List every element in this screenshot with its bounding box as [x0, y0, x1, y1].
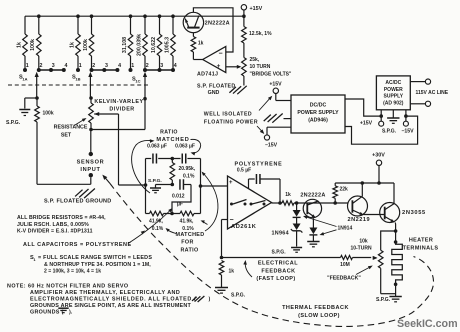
svg-text:SET: SET — [61, 132, 72, 138]
resistor 1k (minus to gnd) — [219, 261, 234, 288]
svg-text:S.P.G.: S.P.G. — [6, 120, 21, 126]
svg-text:= FULL SCALE RANGE SWITCH = L: = FULL SCALE RANGE SWITCH = LEEDS — [38, 255, 152, 261]
wire U2 minus input — [222, 220, 228, 258]
resistor R2 value 100k — [30, 16, 41, 68]
label S1A — [19, 75, 28, 82]
svg-text:RATIO: RATIO — [160, 130, 178, 136]
svg-text:4: 4 — [174, 63, 177, 69]
ground S.P. floated GND (bridge pot) — [229, 86, 246, 94]
resistor R5 value 31,108 — [122, 16, 133, 68]
svg-text:10M: 10M — [340, 262, 350, 268]
ground (Q2 emitter diode) — [307, 235, 319, 247]
svg-text:MATCHED: MATCHED — [176, 232, 205, 238]
svg-text:1: 1 — [131, 63, 134, 69]
power supply DC/DC AD946 box — [291, 95, 345, 133]
note 60Hz line4 — [30, 303, 191, 309]
svg-text:"BRIDGE VOLTS": "BRIDGE VOLTS" — [250, 71, 293, 77]
svg-text:(AD946): (AD946) — [308, 118, 328, 124]
svg-text:1k: 1k — [229, 269, 235, 275]
svg-text:KELVIN-VARLEY: KELVIN-VARLEY — [94, 99, 143, 105]
label 25k 10 TURN BRIDGE VOLTS — [250, 57, 293, 77]
svg-text:1A: 1A — [22, 76, 27, 81]
wire Q1 collector loop — [193, 8, 233, 52]
svg-text:100k: 100k — [30, 39, 36, 51]
svg-text:(AD 902): (AD 902) — [383, 100, 404, 106]
terminal +15V (ac/dc) — [360, 110, 384, 127]
label 10k 10-TURN — [350, 239, 372, 252]
potentiometer 10k 10-turn — [373, 250, 396, 293]
node KV bottom — [89, 128, 93, 132]
svg-text:S.P. FLOATED GROUND: S.P. FLOATED GROUND — [44, 198, 112, 204]
label AD261K — [231, 224, 257, 230]
label WELL ISOLATED FLOATING POWER — [204, 96, 272, 134]
resistor 1k (U2 output) — [282, 192, 294, 205]
svg-text:100k: 100k — [83, 39, 89, 51]
op-amp U1 AD741J — [203, 47, 226, 73]
svg-text:RESISTANCE: RESISTANCE — [54, 125, 88, 131]
wire dc/dc +15V to ac/dc — [345, 99, 381, 116]
svg-text:1005.3: 1005.3 — [164, 37, 170, 53]
svg-text:2N3055: 2N3055 — [402, 210, 426, 216]
wire KV bottom to S1C wiper — [91, 129, 145, 131]
svg-text:115V AC LINE: 115V AC LINE — [415, 90, 448, 96]
svg-text:S.P.G.: S.P.G. — [231, 293, 246, 299]
wiper arrow S1C — [143, 72, 147, 130]
diode D1 1N914 — [293, 203, 301, 217]
svg-text:10,622: 10,622 — [151, 37, 157, 53]
label SENSOR INPUT — [77, 160, 105, 174]
svg-text:4: 4 — [118, 63, 121, 69]
svg-text:S.P.G.: S.P.G. — [376, 297, 391, 303]
svg-text:12.5k, 1%: 12.5k, 1% — [249, 31, 272, 37]
svg-text:1k: 1k — [69, 42, 75, 48]
note bridge resistors — [17, 215, 106, 235]
wire filter output to amp plus input — [201, 185, 228, 187]
resistor 12.5k — [242, 16, 272, 57]
chopper switch contacts inside U2 — [230, 200, 266, 206]
svg-text:MATCHED: MATCHED — [156, 137, 189, 143]
label 1N914 with arrows — [303, 216, 352, 236]
ground S.P.G. (heater) — [376, 284, 402, 303]
label KELVIN-VARLEY DIVIDER — [94, 99, 143, 113]
resistor 22k — [333, 183, 348, 205]
svg-text:NOTE: 60 Hz NOTCH FILTER AND S: NOTE: 60 Hz NOTCH FILTER AND SERVO — [7, 284, 129, 290]
svg-text:+15V: +15V — [269, 82, 282, 88]
wire pot branch — [381, 231, 396, 250]
resistor R6 value 200,039k — [136, 16, 147, 68]
svg-text:DIVIDER: DIVIDER — [109, 107, 134, 113]
svg-text:GND: GND — [208, 90, 220, 96]
svg-text:0.063 µF: 0.063 µF — [147, 144, 167, 150]
annotation arrow to feedback wire — [243, 260, 252, 277]
resistor 100k bridge leg — [35, 98, 54, 122]
svg-text:DC/DC: DC/DC — [310, 103, 327, 109]
svg-text:0.012: 0.012 — [172, 194, 185, 200]
ground rake (dc/dc) — [264, 114, 291, 123]
svg-text:+: + — [229, 180, 233, 186]
switch S1C position dots and common bar — [129, 63, 177, 72]
svg-text:2N2219: 2N2219 — [347, 217, 370, 223]
wire to SPG ground — [25, 98, 37, 109]
svg-text:S.P.G.: S.P.G. — [272, 250, 287, 256]
wire KV wiper to filter input — [119, 114, 146, 185]
label 2N2222A (Q1) — [205, 20, 230, 26]
svg-text:−15V: −15V — [401, 129, 414, 135]
svg-text:31,108: 31,108 — [122, 37, 128, 53]
svg-text:S.P. FLOATED: S.P. FLOATED — [197, 84, 235, 90]
transistor Q4 2N3055 — [380, 203, 400, 223]
node sensor input lower terminal — [89, 173, 93, 184]
wire filter bottom rail — [146, 212, 201, 216]
svg-text:GROUNDS ARE SINGLE POINT, AS A: GROUNDS ARE SINGLE POINT, AS ARE ALL INS… — [30, 303, 191, 309]
svg-text:3: 3 — [160, 63, 163, 69]
ground S.P.G. (bridge) — [6, 110, 30, 127]
svg-text:3: 3 — [52, 63, 55, 69]
label RATIO MATCHED — [156, 130, 189, 144]
svg-text:1k: 1k — [198, 41, 204, 47]
svg-text:S.P.G.: S.P.G. — [148, 178, 162, 184]
label POLYSTYRENE 0.5uF — [235, 162, 283, 174]
node U2 minus junction — [220, 256, 224, 260]
svg-text:GROUNDS (: GROUNDS ( — [30, 310, 64, 316]
svg-text:41.9k,: 41.9k, — [180, 219, 195, 225]
watermark SeekIC.com — [397, 318, 458, 330]
svg-text:SUPPLY: SUPPLY — [384, 94, 404, 100]
note 60Hz line5 — [30, 308, 73, 315]
capacitor 0.5uF polystyrene feedback — [249, 174, 281, 202]
svg-text:2 = 100k, 3 = 10k, 4 = 1k: 2 = 100k, 3 = 10k, 4 = 1k — [44, 269, 101, 275]
svg-text:AD261K: AD261K — [231, 224, 257, 230]
svg-text:2N2222A: 2N2222A — [300, 193, 325, 199]
wire +30V rail — [335, 181, 394, 185]
annotation arrow matched to 41.9k — [166, 228, 177, 234]
wire feedback to pot wiper — [373, 256, 378, 260]
label S.P. FLOATED GND — [197, 84, 235, 96]
transistor Q1 2N2222A — [183, 12, 203, 32]
resistor R4 value 100k — [83, 16, 94, 68]
diode D3 1N914 — [309, 218, 317, 235]
svg-text:): ) — [209, 297, 211, 303]
svg-text:1k: 1k — [285, 192, 291, 198]
node filter mid — [171, 183, 175, 187]
svg-text:+15V: +15V — [250, 6, 263, 12]
svg-text:1C: 1C — [135, 78, 140, 83]
label 2N3055 — [402, 210, 426, 216]
power supply AC/DC AD902 box — [376, 76, 410, 110]
capacitor 0.012uF — [172, 179, 191, 207]
switch S1A position dots and common bar — [23, 63, 68, 72]
svg-text:1N914: 1N914 — [338, 226, 353, 232]
svg-text:).: ). — [69, 310, 73, 316]
svg-text:S.P.G.: S.P.G. — [382, 129, 397, 135]
svg-text:−15V: −15V — [265, 143, 278, 149]
label RESISTANCE SET — [54, 118, 88, 138]
annotation arc polystyrene to 0.012uF — [128, 208, 173, 244]
node diode chain tap — [295, 201, 299, 205]
label 2N2222A (Q2) — [300, 193, 325, 199]
svg-text:0.5 µF: 0.5 µF — [237, 168, 251, 174]
heater element — [392, 240, 403, 286]
svg-text:JULIE RSCH. LABS, 0.005%: JULIE RSCH. LABS, 0.005% — [17, 222, 89, 228]
svg-text:3: 3 — [105, 63, 108, 69]
transistor Q3 2N2219 — [348, 196, 368, 216]
label S1B — [72, 75, 81, 82]
svg-text:SeekIC.com: SeekIC.com — [397, 318, 458, 330]
svg-text:AD741J: AD741J — [197, 72, 218, 78]
wire 0.012 cap to bottom rail — [172, 185, 191, 214]
svg-text:AMPLIFIER ARE THERMALLY, ELECT: AMPLIFIER ARE THERMALLY, ELECTRICALLY AN… — [30, 290, 180, 296]
svg-text:+: + — [217, 63, 221, 70]
wire U2 output — [272, 201, 283, 205]
note 60Hz line3 — [30, 296, 211, 303]
wire dc/dc -15V to ac/dc — [345, 116, 418, 144]
node S1A wiper junction — [35, 96, 39, 100]
svg-text:RATIO: RATIO — [180, 247, 198, 253]
svg-text:0.1%: 0.1% — [152, 226, 164, 232]
resistor 41.9k left — [149, 211, 164, 232]
dashed thermal loop — [102, 175, 433, 327]
wiper arrow S1A — [35, 72, 39, 98]
wire Q4 collector — [393, 183, 395, 204]
terminal -15V (ac/dc) — [401, 110, 414, 135]
wire Q3 emitter to Q4 base — [364, 214, 385, 216]
terminal +15V (dc/dc) — [269, 82, 291, 101]
svg-text:2N2222A: 2N2222A — [205, 20, 230, 26]
label ELECTRICAL FEEDBACK FAST LOOP — [256, 261, 298, 283]
ground S.P.G. (diode chain) — [272, 231, 303, 256]
svg-text:POWER SUPPLY: POWER SUPPLY — [297, 110, 339, 116]
svg-text:2: 2 — [92, 63, 95, 69]
svg-text:SENSOR: SENSOR — [77, 160, 105, 166]
wire Q3 collector — [361, 183, 363, 197]
svg-text:20.95k,: 20.95k, — [179, 166, 196, 172]
diode D2 1N964 zener — [291, 217, 303, 232]
svg-text:0.1%: 0.1% — [183, 174, 195, 180]
svg-text:4: 4 — [65, 63, 68, 69]
wire output to Q2 base — [294, 202, 348, 204]
resistor 41.9k right — [180, 211, 195, 232]
note 60Hz line2 — [30, 290, 180, 296]
ground S.P.G. (1k) — [215, 288, 246, 299]
node sensor input upper terminal — [89, 130, 93, 157]
svg-text:(FAST LOOP): (FAST LOOP) — [256, 276, 295, 282]
wire filter right vertical — [199, 159, 203, 214]
svg-text:FLOATING POWER: FLOATING POWER — [204, 120, 258, 126]
wire U1 plus input to pot wiper — [226, 65, 242, 69]
capacitor 0.063uF right — [182, 154, 186, 164]
wire filter left vertical — [144, 159, 148, 214]
note 60Hz line1 — [7, 284, 129, 290]
svg-text:FOR: FOR — [181, 240, 193, 246]
svg-text:"FEEDBACK": "FEEDBACK" — [327, 276, 361, 282]
label 1N964 — [272, 231, 289, 237]
label S.P. FLOATED GROUND — [44, 198, 112, 204]
svg-text:1: 1 — [26, 63, 29, 69]
transistor Q2 2N2222A — [303, 199, 321, 218]
svg-text:10k: 10k — [359, 239, 368, 245]
wire filter top rail — [146, 157, 201, 161]
terminal +15V bridge — [241, 5, 262, 18]
svg-text:INPUT: INPUT — [80, 167, 100, 173]
svg-text:ELECTRICAL: ELECTRICAL — [258, 261, 298, 267]
svg-text:AC/DC: AC/DC — [385, 80, 401, 86]
annotation arc matched-for-ratio to caps — [201, 172, 218, 232]
svg-text:FEEDBACK: FEEDBACK — [261, 268, 295, 274]
svg-text:TERMINALS: TERMINALS — [403, 245, 439, 251]
svg-text:THERMAL FEEDBACK: THERMAL FEEDBACK — [282, 305, 349, 311]
annotation arc left (ratio matched) — [132, 139, 155, 193]
svg-text:HEATER: HEATER — [409, 238, 433, 244]
svg-text:22k: 22k — [340, 187, 349, 193]
svg-text:K-V DIVIDER = E.S.I. #DP1311: K-V DIVIDER = E.S.I. #DP1311 — [17, 229, 93, 235]
potentiometer 25k bridge volts — [242, 58, 247, 86]
svg-text:−: − — [218, 51, 222, 58]
terminals 115V AC line — [410, 79, 448, 106]
potentiometer kelvin-varley divider — [89, 96, 119, 129]
svg-text:1N964: 1N964 — [272, 231, 289, 237]
resistor R1 value 1k — [16, 16, 27, 68]
terminal +30V — [372, 152, 385, 183]
wire Q4 emitter — [394, 223, 398, 242]
label FEEDBACK quoted — [327, 266, 373, 282]
resistor 20.95k — [170, 159, 196, 185]
resistor R3 value 1k — [69, 16, 80, 68]
labels 0.063uF — [147, 144, 195, 150]
resistor R8 value 1005.3 — [164, 16, 175, 68]
ground S.P. floated (sensor) — [75, 189, 95, 199]
terminal -15V (dc/dc) — [264, 127, 291, 148]
svg-text:1B: 1B — [75, 76, 80, 81]
svg-text:2: 2 — [40, 63, 43, 69]
note capacitors — [23, 242, 132, 248]
svg-text:10-TURN: 10-TURN — [350, 246, 372, 252]
svg-text:+15V: +15V — [360, 121, 373, 127]
ground S.P.G. (ac/dc) — [382, 110, 400, 135]
label 2N2219 — [347, 217, 370, 223]
note S1 range switch — [30, 255, 152, 275]
svg-text:+30V: +30V — [372, 152, 385, 158]
svg-text:ELECTROMAGNETICALLY SHIELDED.: ELECTROMAGNETICALLY SHIELDED. ALL FLOATE… — [30, 297, 196, 303]
svg-text:25k,: 25k, — [250, 57, 260, 63]
svg-text:10 TURN: 10 TURN — [250, 64, 271, 70]
label MATCHED FOR RATIO — [176, 232, 205, 253]
switch S1B position dots and common bar — [76, 63, 121, 72]
junction dots on top rail — [37, 14, 175, 18]
resistor 1k (Q1 base) — [191, 33, 204, 60]
svg-text:1k: 1k — [16, 42, 22, 48]
label AD741J — [197, 72, 218, 78]
svg-text:(SLOW LOOP): (SLOW LOOP) — [298, 313, 340, 319]
label S1C — [132, 77, 141, 84]
svg-text:ALL BRIDGE RESISTORS = #R-44,: ALL BRIDGE RESISTORS = #R-44, — [17, 215, 106, 221]
resistor R7 value 10,622 — [151, 16, 162, 68]
wire 100k down to sensor node — [37, 122, 91, 184]
svg-text:POWER: POWER — [384, 87, 403, 93]
svg-text:ALL CAPACITORS = POLYSTYRENE: ALL CAPACITORS = POLYSTYRENE — [23, 242, 132, 248]
capacitor 0.063uF left — [153, 154, 157, 164]
label THERMAL FEEDBACK SLOW LOOP — [282, 305, 349, 319]
svg-text:WELL ISOLATED: WELL ISOLATED — [204, 112, 252, 118]
svg-text:−: − — [229, 217, 233, 224]
svg-text:200,039k: 200,039k — [136, 34, 142, 56]
wiper arrow S1B — [88, 72, 92, 98]
wire top bus rail — [25, 15, 244, 17]
svg-text:& NORTHRUP TYPE 34. POSITION 1: & NORTHRUP TYPE 34. POSITION 1 = 1M, — [44, 262, 151, 268]
svg-text:2: 2 — [146, 63, 149, 69]
svg-text:1: 1 — [79, 63, 82, 69]
wire electrical feedback — [222, 257, 341, 259]
op-amp U2 AD261K — [228, 176, 272, 229]
label HEATER TERMINALS — [403, 238, 439, 252]
dashed shield line — [8, 84, 150, 86]
annotation arc right (ratio matched) — [191, 139, 201, 155]
svg-text:100k: 100k — [43, 111, 54, 117]
ground S.P.G. (filter) — [148, 178, 172, 193]
svg-text:0.063 µF: 0.063 µF — [175, 144, 195, 150]
resistor 10M — [340, 255, 371, 268]
